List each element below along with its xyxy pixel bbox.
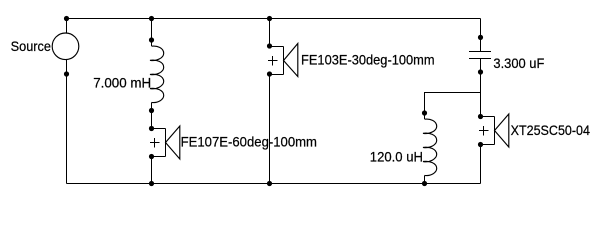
svg-text:Source: Source — [11, 38, 52, 54]
svg-text:FE107E-60deg-100mm: FE107E-60deg-100mm — [181, 133, 317, 149]
svg-text:7.000 mH: 7.000 mH — [93, 75, 151, 91]
svg-text:XT25SC50-04: XT25SC50-04 — [511, 122, 591, 138]
svg-text:FE103E-30deg-100mm: FE103E-30deg-100mm — [301, 52, 435, 68]
svg-text:120.0 uH: 120.0 uH — [370, 149, 423, 165]
svg-text:3.300 uF: 3.300 uF — [493, 55, 544, 71]
